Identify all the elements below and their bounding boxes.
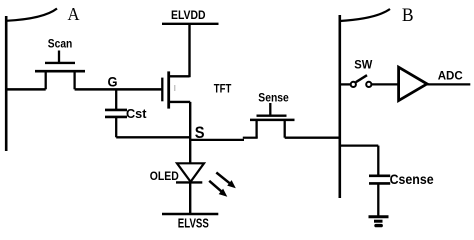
svg-text:TFT: TFT (214, 84, 232, 96)
wire: Csense top lead (377, 146, 379, 176)
wire: curved lead from column B (340, 9, 390, 21)
wire: OLED cathode to ELVSS (189, 182, 191, 214)
svg-text:ELVSS: ELVSS (178, 217, 209, 231)
power ELVSS rail bar (162, 213, 218, 215)
diode OLED: triangle (177, 163, 204, 182)
transistor TFT (drive): source arm (169, 101, 191, 103)
transistor TFT (drive): gate bar (161, 78, 163, 102)
transistor Scan: right drain leg (73, 70, 75, 89)
svg-text:A: A (68, 4, 80, 24)
svg-text:B: B (402, 6, 414, 26)
wire: curved lead from column A (6, 9, 57, 21)
switch SW: right contact circle (366, 82, 371, 87)
OLED emission arrow 1 (216, 173, 236, 189)
transistor Sense: channel bar (250, 119, 295, 122)
transistor Scan: gate stub (58, 51, 60, 63)
transistor TFT (drive): substrate tick (174, 85, 176, 91)
transistor Scan: channel bar (35, 70, 85, 73)
ground (369, 217, 389, 226)
svg-text:OLED: OLED (150, 171, 179, 183)
svg-text:Sense: Sense (258, 93, 289, 105)
wire: Sense to column B (285, 137, 340, 139)
wire: ELVDD to TFT drain (188, 24, 190, 77)
node B column line (sense line bus) (338, 15, 341, 198)
wire: column B to Csense (340, 144, 379, 146)
wire: node G down to Cst (115, 89, 117, 110)
diode OLED: cathode bar (176, 181, 202, 183)
svg-text:ADC: ADC (438, 69, 463, 83)
transistor Sense: right leg (284, 119, 286, 138)
wire: Cst to node S (116, 136, 190, 138)
power ELVDD rail bar (162, 23, 219, 25)
wire: Cst bottom lead (115, 117, 117, 137)
transistor Sense: left leg (255, 119, 257, 138)
wire: column B to switch (340, 83, 351, 85)
svg-text:SW: SW (354, 60, 372, 72)
switch SW: lever (356, 75, 367, 82)
wire: node S to Sense (lower jog) (190, 139, 244, 141)
svg-text:Cst: Cst (126, 106, 147, 121)
transistor Scan: left source leg (45, 70, 47, 89)
svg-text:Scan: Scan (48, 39, 73, 51)
wire: Csense bottom lead to ground (377, 183, 379, 216)
wire: node S to Sense (upper jog) (243, 137, 258, 139)
transistor Sense: gate stub (269, 103, 271, 116)
wire: switch to ADC buffer (372, 83, 399, 85)
capacitor Csense: bottom plate (369, 182, 390, 185)
transistor TFT (drive): channel bar (167, 71, 170, 108)
op-amp ADC buffer triangle (399, 67, 427, 100)
wire: TFT source down through node S to OLED (189, 102, 191, 164)
svg-text:ELVDD: ELVDD (171, 8, 206, 22)
transistor TFT (drive): drain arm (169, 75, 190, 77)
transistor Sense: gate bar (257, 115, 287, 117)
OLED emission arrow 2 (209, 181, 227, 197)
switch SW: left contact circle (351, 82, 356, 87)
transistor Scan: gate bar (45, 62, 75, 64)
wire: Scan drain to TFT gate (node G) (75, 88, 162, 91)
svg-text:G: G (108, 73, 118, 89)
capacitor Cst: bottom plate (105, 116, 127, 119)
svg-text:Csense: Csense (390, 171, 434, 187)
capacitor Cst: top plate (105, 109, 127, 112)
wire: column A to Scan source (5, 88, 46, 91)
capacitor Csense: top plate (369, 175, 390, 178)
node A column line (scan line bus) (5, 16, 8, 151)
wire: buffer output to ADC (427, 83, 470, 85)
